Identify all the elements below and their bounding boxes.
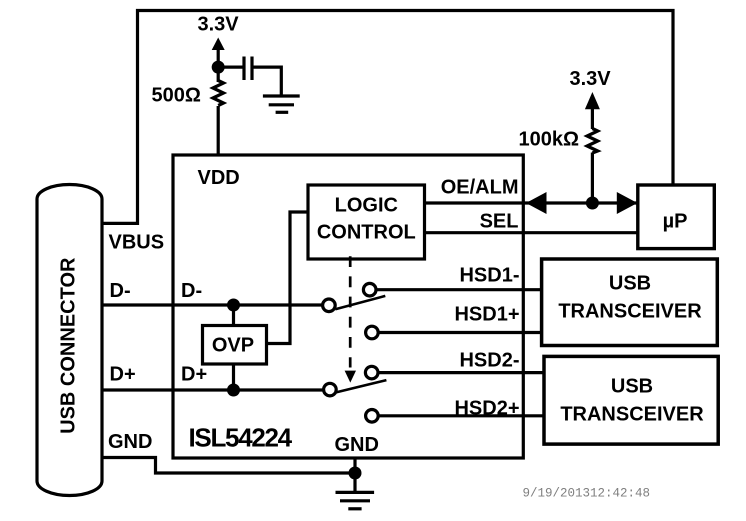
wire VBUS loop from USB connector to uP top xyxy=(101,11,673,224)
ground symbol (capacitor) xyxy=(263,96,300,112)
svg-text:D-: D- xyxy=(110,280,131,302)
svg-text:LOGIC: LOGIC xyxy=(335,195,398,217)
chip ISL54224 outline U1 xyxy=(173,155,523,458)
svg-text:HSD2+: HSD2+ xyxy=(454,397,519,419)
wire OVP bottom stem xyxy=(232,364,235,390)
svg-text:100kΩ: 100kΩ xyxy=(519,129,580,151)
wire to capacitor xyxy=(218,65,242,68)
OVP block xyxy=(203,326,267,365)
svg-text:GND: GND xyxy=(335,434,379,456)
switch SW2 lever xyxy=(336,380,386,392)
logic control block xyxy=(308,185,425,259)
svg-text:GND: GND xyxy=(108,431,152,453)
switch SW1 throw circle HSD1+ xyxy=(366,326,379,339)
wire HSD2- xyxy=(378,371,544,374)
wire GND pin stem xyxy=(353,458,356,473)
switch SW2 throw circle HSD2+ xyxy=(366,410,379,423)
svg-text:VBUS: VBUS xyxy=(109,232,165,254)
node dot GND xyxy=(349,467,362,480)
svg-text:USB CONNECTOR: USB CONNECTOR xyxy=(58,257,80,434)
svg-text:D-: D- xyxy=(181,280,202,302)
wire capacitor to ground xyxy=(254,67,282,96)
ground symbol (main) xyxy=(336,473,375,509)
capacitor C1 xyxy=(242,57,245,81)
wire OE/ALM double arrow to uP xyxy=(523,201,638,204)
svg-text:HSD1+: HSD1+ xyxy=(454,303,519,325)
svg-text:TRANSCEIVER: TRANSCEIVER xyxy=(560,403,704,425)
svg-text:OE/ALM: OE/ALM xyxy=(441,177,519,199)
wire OVP top stem xyxy=(232,305,235,326)
switch SW2 throw circle HSD2- xyxy=(365,366,378,379)
wire D+ xyxy=(101,388,324,391)
switch SW1 lever xyxy=(335,296,385,309)
USB transceiver block 1 xyxy=(542,259,718,346)
svg-text:ISL54224: ISL54224 xyxy=(189,422,293,452)
svg-text:HSD1-: HSD1- xyxy=(459,264,519,286)
power symbol 3.3V left arrow xyxy=(212,38,225,51)
wire SEL from logic control to uP xyxy=(425,231,639,234)
switch SW2 pole circle xyxy=(324,383,337,396)
node dot on D+ xyxy=(227,384,240,397)
svg-text:CONTROL: CONTROL xyxy=(317,222,416,244)
wire HSD2+ xyxy=(378,414,544,417)
svg-text:3.3V: 3.3V xyxy=(570,68,612,90)
wire logic control to OVP xyxy=(267,212,309,344)
USB transceiver block 2 xyxy=(544,356,718,444)
power symbol 3.3V right arrow xyxy=(585,92,600,109)
svg-text:SEL: SEL xyxy=(480,211,519,233)
svg-text:µP: µP xyxy=(663,211,688,233)
switch SW1 throw circle HSD1- xyxy=(363,283,376,296)
uP block xyxy=(638,185,715,249)
svg-text:D+: D+ xyxy=(181,364,207,386)
dashed control line with arrow xyxy=(349,256,352,367)
resistor R1 500 ohm xyxy=(213,81,224,106)
wire GND from connector xyxy=(101,458,355,474)
wire HSD1+ xyxy=(378,331,541,334)
svg-text:USB: USB xyxy=(611,375,653,397)
svg-text:TRANSCEIVER: TRANSCEIVER xyxy=(558,301,702,323)
wire OE/ALM from logic control xyxy=(425,201,524,204)
svg-text:500Ω: 500Ω xyxy=(152,85,201,107)
wire D- xyxy=(101,303,323,306)
svg-text:USB: USB xyxy=(609,273,651,295)
node dot on D- xyxy=(227,299,240,312)
node junction dot VDD xyxy=(212,61,225,74)
svg-text:3.3V: 3.3V xyxy=(198,14,240,36)
svg-text:HSD2-: HSD2- xyxy=(459,350,519,372)
svg-text:D+: D+ xyxy=(110,364,136,386)
USB connector J1 xyxy=(37,185,102,496)
svg-text:OVP: OVP xyxy=(212,335,254,357)
svg-text:VDD: VDD xyxy=(198,167,240,189)
resistor R2 100k ohm xyxy=(587,129,598,154)
node dot on arrow line xyxy=(586,197,599,210)
svg-text:9/19/201312:42:48: 9/19/201312:42:48 xyxy=(523,487,651,501)
switch SW1 pole circle xyxy=(323,299,336,312)
wire HSD1- xyxy=(376,288,542,291)
